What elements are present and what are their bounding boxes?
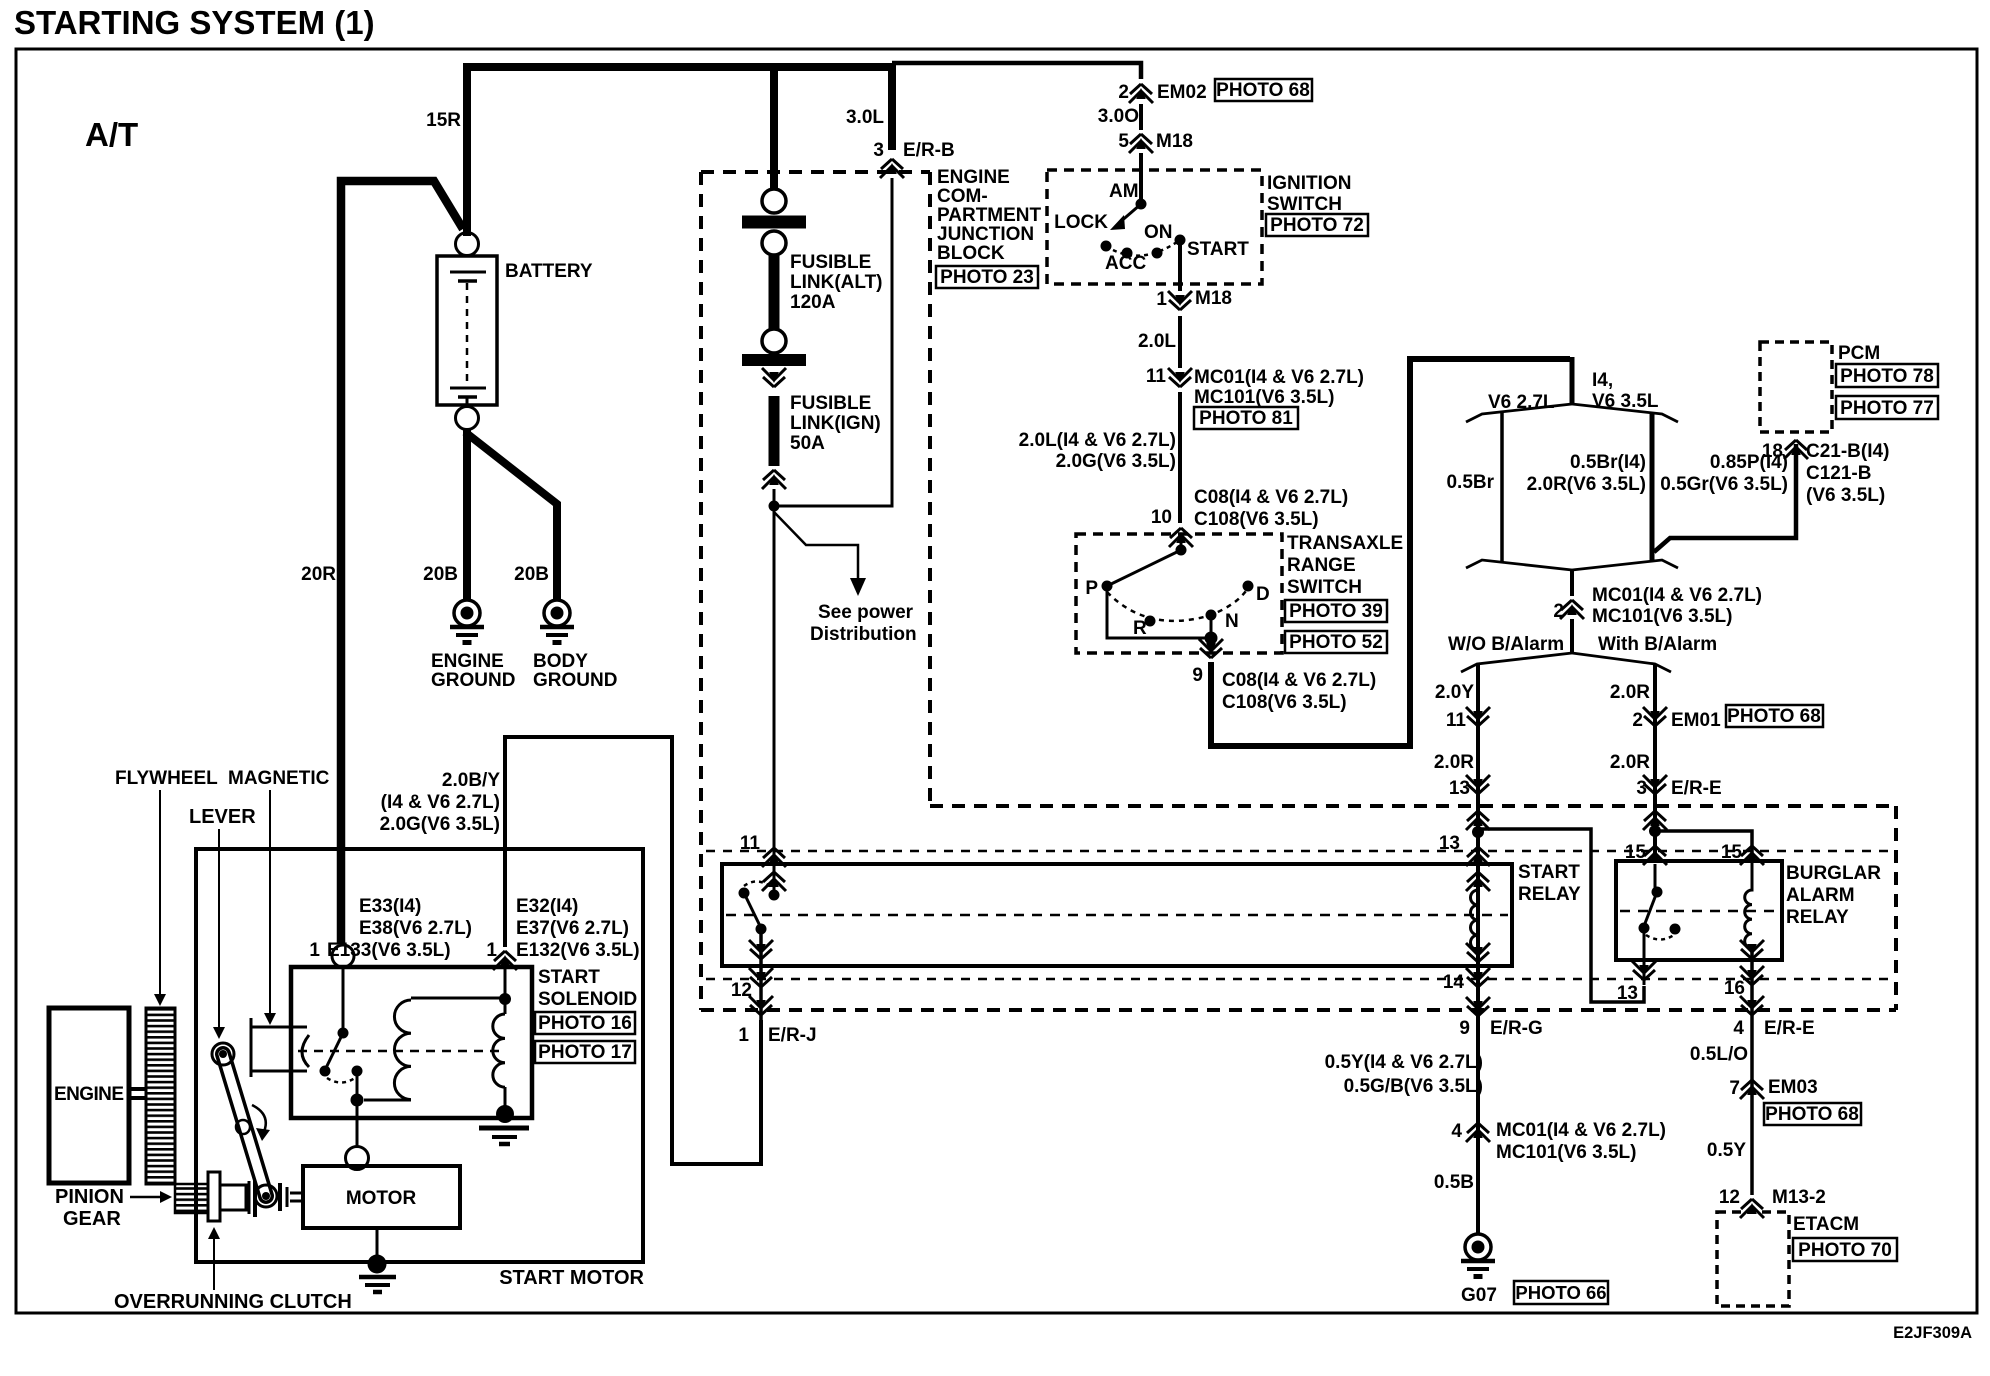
wire EM02 to M18 <box>1139 104 1143 130</box>
svg-text:ENGINE: ENGINE <box>431 651 504 672</box>
svg-text:PHOTO 52: PHOTO 52 <box>1289 632 1383 653</box>
connector burglar coil pin 15 <box>1740 846 1764 865</box>
svg-text:Distribution: Distribution <box>810 624 917 645</box>
connector into relay box pin 13 <box>1466 811 1490 830</box>
svg-text:C08(I4 & V6 2.7L): C08(I4 & V6 2.7L) <box>1194 487 1348 508</box>
connector MC01 pin 4 <box>1466 1123 1490 1142</box>
wire to burglar alarm relay coil <box>1655 831 1752 861</box>
connector EM02 pin 2 <box>1129 84 1153 103</box>
connector M18 pin 1 <box>1168 291 1192 310</box>
wire With B/Alarm branch <box>1653 664 1657 861</box>
svg-text:PHOTO 68: PHOTO 68 <box>1727 706 1821 727</box>
connector start relay switch pin 11 <box>762 848 786 867</box>
solenoid pull-in coil <box>394 1000 411 1100</box>
svg-text:13: 13 <box>1439 833 1460 854</box>
svg-text:9: 9 <box>1192 665 1203 686</box>
svg-text:PHOTO 70: PHOTO 70 <box>1798 1240 1892 1261</box>
connector E/R-B pin 3 <box>880 159 904 178</box>
PCM dashed box <box>1760 342 1832 432</box>
connector MC01 pin 11 <box>1168 368 1192 387</box>
svg-text:3: 3 <box>1636 778 1647 799</box>
PHOTO 72 box <box>1266 214 1368 236</box>
burglar coil output chain <box>1750 950 1754 1195</box>
wire burglar 13 loop to start relay coil <box>1482 829 1644 1002</box>
svg-text:PHOTO 81: PHOTO 81 <box>1199 408 1293 429</box>
svg-text:1: 1 <box>1156 289 1167 310</box>
start relay switch <box>739 881 780 934</box>
svg-text:SOLENOID: SOLENOID <box>538 989 637 1010</box>
see power distribution branch <box>774 512 858 578</box>
svg-text:AM: AM <box>1109 181 1139 202</box>
svg-text:START: START <box>538 967 600 988</box>
PHOTO 70 box <box>1793 1238 1897 1261</box>
svg-text:W/O B/Alarm: W/O B/Alarm <box>1448 634 1564 655</box>
connector C08 pin 10 <box>1169 528 1193 547</box>
svg-text:E132(V6 3.5L): E132(V6 3.5L) <box>516 940 640 961</box>
solenoid plunger <box>251 1018 309 1077</box>
svg-text:ON: ON <box>1144 222 1173 243</box>
svg-text:0.5Y: 0.5Y <box>1707 1140 1746 1161</box>
svg-text:2.0L(I4 & V6 2.7L): 2.0L(I4 & V6 2.7L) <box>1019 430 1176 451</box>
svg-text:C108(V6 3.5L): C108(V6 3.5L) <box>1194 509 1319 530</box>
fusible link (IGN) 50A <box>742 329 881 489</box>
svg-text:PHOTO 78: PHOTO 78 <box>1840 366 1934 387</box>
wire 15R battery to top rail to E/R-B <box>467 67 892 236</box>
connector E/R-E pin 3 <box>1643 775 1667 794</box>
svg-text:PHOTO 17: PHOTO 17 <box>538 1042 632 1063</box>
svg-text:N: N <box>1225 611 1239 632</box>
svg-text:TRANSAXLE: TRANSAXLE <box>1287 533 1403 554</box>
svg-text:BODY: BODY <box>533 651 588 672</box>
svg-text:MC01(I4 & V6 2.7L): MC01(I4 & V6 2.7L) <box>1194 367 1364 388</box>
svg-text:2.0R: 2.0R <box>1610 752 1650 773</box>
svg-text:14: 14 <box>1443 972 1465 993</box>
engine ground symbol <box>450 600 484 643</box>
svg-text:0.5Br(I4): 0.5Br(I4) <box>1570 452 1646 473</box>
svg-text:RELAY: RELAY <box>1786 907 1849 928</box>
wire ignition START to M18 pin 1 <box>1178 240 1182 291</box>
svg-text:5: 5 <box>1118 131 1129 152</box>
svg-text:E/R-G: E/R-G <box>1490 1018 1543 1039</box>
svg-text:120A: 120A <box>790 292 836 313</box>
connector burglar switch pin 15 <box>1643 846 1667 865</box>
connector into relay area <box>1643 811 1667 830</box>
PHOTO 68 box (EM03) <box>1764 1103 1861 1125</box>
pinion gear <box>175 1184 208 1213</box>
start motor outer box <box>196 849 643 1262</box>
svg-text:2: 2 <box>1118 82 1129 103</box>
PHOTO 66 box <box>1514 1281 1608 1304</box>
start solenoid box <box>291 967 532 1118</box>
svg-text:9: 9 <box>1459 1018 1470 1039</box>
svg-text:LEVER: LEVER <box>189 806 256 828</box>
svg-text:A/T: A/T <box>85 116 138 153</box>
ground G07 <box>1461 1234 1495 1277</box>
svg-text:0.5L/O: 0.5L/O <box>1690 1044 1748 1065</box>
wire E/R-J loop to start solenoid <box>505 737 761 1164</box>
wire 20B to body ground <box>465 432 557 600</box>
svg-text:0.5Gr(V6 3.5L): 0.5Gr(V6 3.5L) <box>1660 474 1788 495</box>
PHOTO 68 box <box>1215 79 1312 101</box>
svg-text:RANGE: RANGE <box>1287 555 1356 576</box>
solenoid terminal E33 <box>332 945 354 967</box>
svg-text:M18: M18 <box>1156 131 1193 152</box>
engine box <box>49 1008 129 1183</box>
svg-text:See power: See power <box>818 602 914 623</box>
svg-text:1: 1 <box>309 940 320 961</box>
PHOTO 23 box <box>936 266 1038 288</box>
connector MC01 pin 2 <box>1560 600 1584 619</box>
engine option split top <box>1570 357 1575 404</box>
svg-text:JUNCTION: JUNCTION <box>937 224 1034 245</box>
svg-text:0.5Br: 0.5Br <box>1446 472 1494 493</box>
svg-text:E33(I4): E33(I4) <box>359 896 421 917</box>
svg-text:ENGINE: ENGINE <box>54 1084 124 1105</box>
svg-text:PARTMENT: PARTMENT <box>937 205 1042 226</box>
svg-text:C108(V6 3.5L): C108(V6 3.5L) <box>1222 692 1347 713</box>
solenoid contact switch <box>320 967 364 1147</box>
junction node dot <box>769 501 780 512</box>
svg-text:EM02: EM02 <box>1157 82 1207 103</box>
svg-text:EM03: EM03 <box>1768 1077 1818 1098</box>
svg-text:RELAY: RELAY <box>1518 884 1581 905</box>
overrunning clutch <box>208 1172 303 1221</box>
wire MC01 to C08 <box>1178 392 1182 523</box>
svg-text:7: 7 <box>1729 1078 1740 1099</box>
svg-text:R: R <box>1133 618 1147 639</box>
svg-text:V6 2.7L: V6 2.7L <box>1488 392 1555 413</box>
svg-text:ALARM: ALARM <box>1786 885 1855 906</box>
svg-text:13: 13 <box>1449 778 1470 799</box>
start relay box <box>722 864 1512 966</box>
wire 20R battery to start solenoid <box>341 181 463 944</box>
fusible link (ALT) 120A <box>742 189 883 330</box>
svg-text:V6 3.5L: V6 3.5L <box>1592 391 1659 412</box>
start relay coil <box>1471 890 1478 950</box>
svg-text:FLYWHEEL: FLYWHEEL <box>115 768 218 789</box>
svg-text:PCM: PCM <box>1838 343 1880 364</box>
thick wire C08 up to engine option split <box>1211 359 1570 746</box>
wire I4/V6 3.5L branch <box>1650 413 1655 562</box>
PHOTO 68 box (EM01) <box>1726 705 1823 727</box>
svg-text:2.0L: 2.0L <box>1138 331 1176 352</box>
svg-text:MOTOR: MOTOR <box>346 1188 417 1209</box>
svg-text:10: 10 <box>1151 507 1172 528</box>
svg-text:C21-B(I4): C21-B(I4) <box>1806 441 1889 462</box>
wire top rail to EM02 <box>892 63 1141 79</box>
fusible link ALT feed wire <box>770 71 778 190</box>
wire from E/R-B down to fusible link junction <box>774 178 892 506</box>
svg-text:MC01(I4 & V6 2.7L): MC01(I4 & V6 2.7L) <box>1496 1120 1666 1141</box>
PHOTO 77 box <box>1836 396 1938 419</box>
svg-text:2.0Y: 2.0Y <box>1435 682 1474 703</box>
svg-text:BLOCK: BLOCK <box>937 243 1005 264</box>
svg-text:PHOTO 68: PHOTO 68 <box>1216 80 1310 101</box>
transaxle range switch dashed box <box>1076 534 1282 653</box>
svg-text:M18: M18 <box>1195 288 1232 309</box>
svg-text:E32(I4): E32(I4) <box>516 896 578 917</box>
svg-text:PHOTO 68: PHOTO 68 <box>1765 1104 1859 1125</box>
svg-text:0.5B: 0.5B <box>1434 1172 1474 1193</box>
svg-text:E133(V6 3.5L): E133(V6 3.5L) <box>327 940 451 961</box>
lever rotation arrow <box>252 1105 266 1134</box>
PHOTO 52 box <box>1285 631 1387 653</box>
svg-text:2.0R(V6 3.5L): 2.0R(V6 3.5L) <box>1527 474 1646 495</box>
svg-text:GROUND: GROUND <box>533 670 617 691</box>
junction block connector rail upper <box>706 850 1893 852</box>
svg-text:OVERRUNNING CLUTCH: OVERRUNNING CLUTCH <box>114 1291 352 1313</box>
svg-text:2.0R: 2.0R <box>1610 682 1650 703</box>
connector start relay coil bottom <box>1466 943 1490 962</box>
PHOTO 17 box <box>535 1041 635 1063</box>
svg-text:SWITCH: SWITCH <box>1287 577 1362 598</box>
svg-text:MC101(V6 3.5L): MC101(V6 3.5L) <box>1592 606 1732 627</box>
svg-text:PHOTO 77: PHOTO 77 <box>1840 398 1934 419</box>
svg-text:4: 4 <box>1451 1121 1462 1142</box>
connector E/R-E pin 13 <box>1466 775 1490 794</box>
svg-text:12: 12 <box>1719 1187 1740 1208</box>
svg-text:0.85P(I4): 0.85P(I4) <box>1710 452 1788 473</box>
connector C08 pin 9 <box>1199 639 1223 658</box>
svg-text:PHOTO 39: PHOTO 39 <box>1289 601 1383 622</box>
burglar alarm relay coil <box>1745 861 1752 948</box>
wire start relay switch output <box>759 929 763 1020</box>
svg-text:E38(V6 2.7L): E38(V6 2.7L) <box>359 918 472 939</box>
svg-text:PINION: PINION <box>55 1186 124 1208</box>
svg-text:PHOTO 72: PHOTO 72 <box>1270 215 1364 236</box>
solenoid ground <box>479 1105 529 1144</box>
svg-text:C08(I4 & V6 2.7L): C08(I4 & V6 2.7L) <box>1222 670 1376 691</box>
svg-text:0.5Y(I4 & V6 2.7L): 0.5Y(I4 & V6 2.7L) <box>1325 1052 1483 1073</box>
svg-text:2: 2 <box>1553 601 1564 622</box>
engine to flywheel link <box>129 1087 146 1091</box>
svg-text:C121-B: C121-B <box>1806 463 1871 484</box>
svg-text:P: P <box>1085 578 1098 599</box>
burglar alarm relay switch <box>1639 864 1681 940</box>
motor terminal <box>346 1147 369 1170</box>
connector start relay coil top <box>1466 847 1490 866</box>
wire W/O B/Alarm branch to start relay coil <box>1476 664 1480 1233</box>
PHOTO 78 box <box>1836 364 1938 387</box>
wire M18 to MC01 <box>1178 316 1182 368</box>
svg-text:START: START <box>1518 862 1580 883</box>
svg-text:2.0G(V6 3.5L): 2.0G(V6 3.5L) <box>1056 451 1176 472</box>
svg-text:STARTING SYSTEM (1): STARTING SYSTEM (1) <box>14 4 375 41</box>
PHOTO 39 box <box>1285 600 1387 622</box>
ignition switch dashed box <box>1047 170 1262 284</box>
body ground symbol <box>540 600 574 643</box>
svg-text:With B/Alarm: With B/Alarm <box>1598 634 1717 655</box>
junction block label <box>937 167 1042 264</box>
svg-text:G07: G07 <box>1461 1285 1497 1306</box>
svg-text:BURGLAR: BURGLAR <box>1786 863 1881 884</box>
burglar alarm option split <box>1570 619 1574 653</box>
svg-text:E37(V6 2.7L): E37(V6 2.7L) <box>516 918 629 939</box>
svg-text:11: 11 <box>740 833 761 854</box>
svg-text:PHOTO 66: PHOTO 66 <box>1515 1282 1606 1303</box>
wire burglar switch output pin 13 <box>1643 928 1646 985</box>
PHOTO 81 box <box>1194 407 1298 429</box>
svg-text:2.0B/Y: 2.0B/Y <box>442 770 500 791</box>
svg-text:LOCK: LOCK <box>1054 212 1108 233</box>
wire 0.5Br V6 2.7L branch <box>1500 412 1504 562</box>
svg-text:4: 4 <box>1733 1018 1744 1039</box>
transaxle range switch contacts <box>1085 533 1269 645</box>
wire PCM to option merge <box>1654 444 1796 552</box>
svg-text:E/R-E: E/R-E <box>1764 1018 1815 1039</box>
svg-text:1: 1 <box>738 1025 749 1046</box>
ignition switch contacts <box>1054 181 1249 274</box>
wire M18 to ignition switch AM <box>1139 153 1143 203</box>
engine compartment junction block dashed outline <box>701 172 1896 1010</box>
svg-text:3.0L: 3.0L <box>846 107 884 128</box>
PHOTO 16 box <box>535 1012 635 1034</box>
svg-text:MC101(V6 3.5L): MC101(V6 3.5L) <box>1194 387 1334 408</box>
svg-text:E/R-E: E/R-E <box>1671 778 1722 799</box>
svg-text:MC01(I4 & V6 2.7L): MC01(I4 & V6 2.7L) <box>1592 585 1762 606</box>
svg-text:E/R-J: E/R-J <box>768 1025 817 1046</box>
svg-text:20R: 20R <box>301 564 336 585</box>
svg-text:3: 3 <box>873 140 884 161</box>
svg-text:SWITCH: SWITCH <box>1267 194 1342 215</box>
svg-text:PHOTO 23: PHOTO 23 <box>940 267 1034 288</box>
svg-text:MAGNETIC: MAGNETIC <box>228 768 330 789</box>
svg-text:I4,: I4, <box>1592 370 1613 391</box>
junction node burglar alarm feeds <box>1649 825 1661 837</box>
svg-text:2.0G(V6 3.5L): 2.0G(V6 3.5L) <box>380 814 500 835</box>
connector EM01 pin 2 <box>1643 707 1667 726</box>
burglar alarm relay box <box>1616 861 1782 960</box>
svg-text:11: 11 <box>1146 366 1167 387</box>
solenoid dashed actuation line <box>298 1050 505 1053</box>
lever <box>212 1043 277 1207</box>
svg-text:E2JF309A: E2JF309A <box>1893 1324 1972 1342</box>
svg-text:ENGINE: ENGINE <box>937 167 1010 188</box>
svg-text:M13-2: M13-2 <box>1772 1187 1826 1208</box>
battery <box>437 233 593 430</box>
solenoid hold-in coil wire <box>504 966 507 1014</box>
svg-text:COM-: COM- <box>937 186 988 207</box>
connector M13-2 pin 12 <box>1740 1199 1764 1218</box>
svg-text:START: START <box>1187 239 1249 260</box>
svg-text:MC101(V6 3.5L): MC101(V6 3.5L) <box>1496 1142 1636 1163</box>
junction node start relay coil / burglar loop <box>1472 826 1484 838</box>
svg-text:0.5G/B(V6 3.5L): 0.5G/B(V6 3.5L) <box>1344 1076 1483 1097</box>
svg-text:GROUND: GROUND <box>431 670 515 691</box>
svg-text:FUSIBLE: FUSIBLE <box>790 393 871 414</box>
engine option merge <box>1466 560 1678 570</box>
svg-text:D: D <box>1256 584 1270 605</box>
connector pin 12 chain <box>749 940 773 959</box>
svg-text:3.0O: 3.0O <box>1098 106 1139 127</box>
svg-text:IGNITION: IGNITION <box>1267 173 1351 194</box>
connector E32 pin 1 <box>493 951 517 970</box>
wire 20B to engine ground <box>463 429 471 600</box>
svg-text:15R: 15R <box>426 110 461 131</box>
svg-text:EM01: EM01 <box>1671 710 1721 731</box>
svg-text:LINK(ALT): LINK(ALT) <box>790 272 883 293</box>
svg-text:2.0R: 2.0R <box>1434 752 1474 773</box>
svg-text:(V6 3.5L): (V6 3.5L) <box>1806 485 1885 506</box>
svg-text:LINK(IGN): LINK(IGN) <box>790 413 881 434</box>
svg-text:PHOTO 16: PHOTO 16 <box>538 1013 632 1034</box>
svg-text:GEAR: GEAR <box>63 1208 121 1230</box>
svg-text:START MOTOR: START MOTOR <box>499 1267 644 1289</box>
svg-text:20B: 20B <box>514 564 549 585</box>
connector EM01 pin 11 <box>1466 707 1490 726</box>
svg-text:ACC: ACC <box>1105 253 1146 274</box>
svg-text:20B: 20B <box>423 564 458 585</box>
motor ground <box>359 1228 396 1292</box>
svg-text:50A: 50A <box>790 433 825 454</box>
ETACM dashed box <box>1717 1212 1789 1306</box>
connector M18 pin 5 <box>1129 134 1153 153</box>
motor box <box>303 1166 460 1228</box>
connector EM03 pin 7 <box>1740 1080 1764 1099</box>
svg-text:2: 2 <box>1632 710 1643 731</box>
wire fusible link to start relay <box>773 489 776 893</box>
svg-text:E/R-B: E/R-B <box>903 140 955 161</box>
svg-text:ETACM: ETACM <box>1793 1214 1859 1235</box>
flywheel <box>146 1008 175 1184</box>
junction block connector rail lower <box>706 978 1893 980</box>
svg-text:(I4 & V6 2.7L): (I4 & V6 2.7L) <box>381 792 500 813</box>
svg-text:FUSIBLE: FUSIBLE <box>790 252 871 273</box>
svg-text:BATTERY: BATTERY <box>505 261 593 282</box>
connector C21-B pin 18 <box>1784 440 1808 459</box>
svg-text:11: 11 <box>1446 710 1467 731</box>
